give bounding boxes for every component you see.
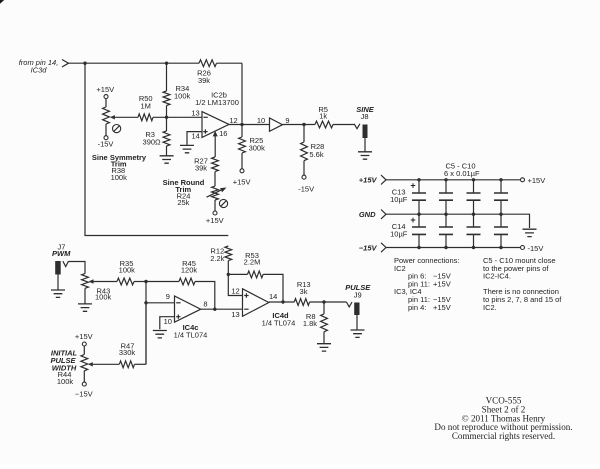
- svg-text:+: +: [410, 215, 415, 225]
- junction: R34/R3/R50 node: [165, 116, 168, 119]
- svg-text:390Ω: 390Ω: [143, 138, 162, 147]
- svg-text:IC3d: IC3d: [31, 65, 48, 74]
- svg-text:-15V: -15V: [298, 184, 314, 193]
- potentiometer R43 100k: [82, 274, 117, 304]
- capacitor C9 0.01uF: [467, 214, 481, 247]
- svg-text:12: 12: [229, 116, 237, 125]
- resistor R26 39k: [197, 60, 216, 85]
- wire: to pin 12: [228, 274, 242, 295]
- ground: below R3: [160, 156, 174, 163]
- capacitor C13 10uF: [390, 180, 426, 214]
- svg-text:12: 12: [231, 286, 239, 295]
- junction: summing node at pin 9: [144, 301, 147, 304]
- junction: input to left rail: [83, 62, 86, 65]
- capacitor C8 0.01uF: [439, 214, 453, 247]
- ground: at pin 14: [180, 145, 194, 152]
- svg-text:+15V: +15V: [433, 279, 451, 288]
- wire: IC4c output: [201, 308, 243, 310]
- wire: OTA output: [229, 124, 270, 126]
- resistor R50 1M: [138, 94, 153, 121]
- svg-text:−15V: −15V: [75, 389, 93, 398]
- junction: hysteresis node: [227, 273, 230, 276]
- resistor R28 5.6k: [298, 125, 324, 194]
- svg-text:100k: 100k: [174, 92, 191, 101]
- svg-text:10µF: 10µF: [390, 230, 408, 239]
- svg-text:PWM: PWM: [52, 249, 71, 258]
- svg-text:IC2-IC4.: IC2-IC4.: [483, 272, 511, 281]
- svg-text:Commercial rights reserved.: Commercial rights reserved.: [452, 431, 555, 441]
- svg-text:25k: 25k: [177, 198, 189, 207]
- resistor R45 120k: [146, 259, 215, 309]
- amplifier: IC2b output buffer: [270, 118, 283, 131]
- title block: [434, 396, 572, 442]
- svg-text:GND: GND: [359, 210, 376, 219]
- svg-text:1/4 TL074: 1/4 TL074: [262, 319, 296, 328]
- resistor R5 1k: [315, 105, 354, 128]
- op-amp IC4d 1/4 TL074: [243, 289, 296, 328]
- svg-text:−15V: −15V: [359, 244, 378, 253]
- svg-text:2.2M: 2.2M: [244, 257, 261, 266]
- svg-text:5.6k: 5.6k: [309, 150, 323, 159]
- net -15V bus: [359, 243, 544, 253]
- svg-text:J9: J9: [354, 290, 362, 299]
- wire: left rail to pulse section: [85, 63, 228, 235]
- junction: sine output node: [302, 123, 305, 126]
- bias arrow into pin 16: [213, 131, 218, 157]
- junction: pin 12 node: [240, 123, 243, 126]
- svg-text:39k: 39k: [198, 76, 210, 85]
- note: C5-C10 mounting text: [483, 256, 562, 312]
- ground: J7 sleeve: [51, 290, 65, 297]
- resistor R3 390ohm: [143, 117, 170, 155]
- wire: pin 10 to ground: [160, 317, 175, 330]
- resistor R12 2.2k: [210, 246, 231, 274]
- resistor R27 39k: [194, 156, 218, 186]
- svg-text:120k: 120k: [181, 266, 198, 275]
- label: C5 - C10 6 x 0.01uF: [444, 161, 480, 178]
- svg-text:10µF: 10µF: [390, 195, 408, 204]
- svg-text:+15V: +15V: [96, 85, 114, 94]
- svg-text:13: 13: [191, 109, 199, 118]
- capacitor C14 10uF: [390, 214, 426, 247]
- capacitor C5 0.01uF: [439, 180, 453, 214]
- jack J8 SINE output: [354, 105, 375, 152]
- potentiometer R44 Initial Pulse Width 100k: [75, 332, 119, 398]
- svg-text:IC2.: IC2.: [483, 303, 497, 312]
- ground: GND bus: [523, 229, 537, 236]
- net +15V bus: [359, 175, 545, 185]
- jack J7 PWM input: [52, 242, 85, 289]
- net GND bus: [359, 210, 530, 229]
- svg-text:6 x 0.01µF: 6 x 0.01µF: [444, 169, 480, 178]
- junction: input to R34: [165, 62, 168, 65]
- junctions: bus taps: [417, 178, 502, 249]
- svg-text:16: 16: [219, 129, 227, 138]
- svg-text:10: 10: [164, 317, 172, 326]
- capacitor C10 0.01uF: [494, 214, 508, 247]
- wire: buffer output: [283, 124, 316, 126]
- jack J9 PULSE output: [345, 283, 371, 330]
- svg-text:300k: 300k: [249, 144, 266, 153]
- capacitor C6 0.01uF: [467, 180, 481, 214]
- svg-text:pin 4:: pin 4:: [408, 303, 426, 312]
- wire: IC4d output: [269, 301, 294, 303]
- junction: R53 to output: [281, 300, 284, 303]
- svg-text:+15V: +15V: [433, 303, 451, 312]
- node: input from pin 14, IC3d: [19, 58, 69, 74]
- label: Initial Pulse Width R44 100k: [50, 349, 77, 386]
- capacitor C7 0.01uF: [494, 180, 508, 214]
- trimmer R24 Sine Round Trim 25k: [206, 186, 228, 225]
- svg-text:9: 9: [285, 116, 289, 125]
- svg-text:-15V: -15V: [528, 244, 544, 253]
- wire: pin 14 to ground: [187, 132, 202, 145]
- resistor R47 330k: [119, 303, 146, 368]
- svg-text:2.2k: 2.2k: [210, 254, 224, 263]
- svg-text:+15V: +15V: [206, 216, 224, 225]
- svg-text:+15V: +15V: [359, 175, 378, 184]
- svg-text:+15V: +15V: [528, 176, 546, 185]
- svg-text:J8: J8: [361, 112, 369, 121]
- op-amp IC4c 1/4 TL074: [174, 296, 208, 340]
- op-amp IC2b 1/2 LM13700: [195, 90, 239, 137]
- svg-text:+: +: [410, 180, 415, 190]
- svg-text:39k: 39k: [195, 163, 207, 172]
- ground: at pin 10: [153, 331, 167, 338]
- svg-text:-15V: -15V: [98, 139, 114, 148]
- svg-text:14: 14: [269, 292, 277, 301]
- svg-text:1k: 1k: [319, 111, 327, 120]
- svg-text:1/4 TL074: 1/4 TL074: [174, 331, 208, 340]
- wire: summing node vertical: [145, 282, 147, 365]
- svg-text:100k: 100k: [119, 266, 136, 275]
- svg-text:9: 9: [166, 292, 170, 301]
- resistor R53 2.2M: [228, 251, 283, 302]
- wire: R26 to pin 12 node: [241, 63, 243, 123]
- svg-text:100k: 100k: [111, 173, 128, 182]
- svg-text:+15V: +15V: [233, 178, 251, 187]
- svg-text:3k: 3k: [300, 287, 308, 296]
- wire: main input line: [69, 62, 243, 64]
- svg-text:14: 14: [192, 131, 200, 140]
- potentiometer R38 Sine Symmetry Trim: [96, 85, 138, 148]
- label: Sine Symmetry Trim R38 100k: [92, 153, 147, 182]
- resistor R34 100k: [163, 63, 190, 117]
- svg-text:10: 10: [257, 116, 265, 125]
- ground: below R8: [317, 344, 331, 351]
- svg-text:8: 8: [203, 299, 207, 308]
- ground: J8 sleeve: [358, 152, 372, 159]
- junction: summing node upper: [144, 280, 147, 283]
- svg-text:330k: 330k: [119, 348, 136, 357]
- svg-text:1/2 LM13700: 1/2 LM13700: [195, 98, 239, 107]
- junction: IC4c output node: [213, 308, 216, 311]
- wire: to pin 9: [146, 302, 175, 304]
- svg-text:100k: 100k: [95, 293, 112, 302]
- wire: R50 node to pin 13: [153, 116, 202, 118]
- resistor R13 3k: [294, 280, 346, 305]
- ground: J9 sleeve: [351, 330, 365, 337]
- svg-text:13: 13: [231, 310, 239, 319]
- svg-text:IC2: IC2: [394, 264, 406, 273]
- svg-text:1.8k: 1.8k: [303, 319, 317, 328]
- junction: pulse output node: [322, 300, 325, 303]
- svg-text:1M: 1M: [140, 101, 150, 110]
- resistor R25 300k: [233, 125, 265, 187]
- svg-text:100k: 100k: [57, 377, 74, 386]
- ground: below R43: [78, 304, 92, 311]
- note: power connections text: [394, 256, 459, 312]
- resistor R8 1.8k: [303, 302, 328, 344]
- label: Sine Round Trim R24 25k: [163, 178, 205, 207]
- resistor R35 100k: [117, 259, 146, 285]
- svg-text:+15V: +15V: [75, 332, 93, 341]
